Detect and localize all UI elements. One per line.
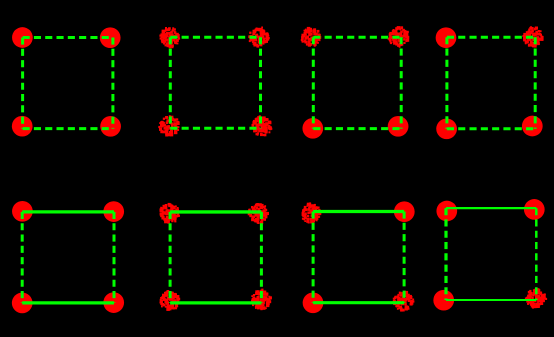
square 2 top edge (dashed) [170,36,260,39]
square 2 left edge (dashed) [169,37,172,128]
square 4 corner marker BR (solid dot) [522,116,543,137]
square 5 corner marker BR (solid dot) [103,292,124,313]
square 1 corner marker TL (solid dot) [12,27,33,48]
square 7 right edge (dashed) [403,212,406,303]
square 7 corner marker BR (stippled dot) [393,291,415,312]
square 3 right edge (dashed) [400,37,403,128]
square 1 top edge (dashed) [23,36,113,39]
square 7 bottom edge (solid) [313,301,404,304]
square 1 corner marker BR (solid dot) [100,116,121,137]
square 5 corner marker TR (solid dot) [103,201,124,222]
square 3 bottom edge (dashed) [313,127,401,130]
square 2 corner marker BR (stippled dot) [252,115,273,136]
square 2 bottom edge (dashed) [170,127,260,130]
square 3 corner marker TR (stippled dot) [388,26,410,48]
square 4 bottom edge (dashed) [447,127,535,130]
square 8 left edge (dashed) [444,208,447,300]
square 4 corner marker TR (stippled dot) [522,26,543,47]
square 7 left edge (dashed) [312,212,315,303]
square 1 right edge (dashed) [111,38,114,129]
square 3 left edge (dashed) [312,37,315,128]
square 4 left edge (dashed) [445,37,448,129]
square 6 top edge (solid) [170,210,261,213]
square 3 top edge (dashed) [313,36,401,39]
square 5 left edge (dashed) [21,212,24,303]
square 8 corner marker TL (solid dot) [436,201,457,222]
square 1 corner marker BL (solid dot) [12,116,33,137]
square 8 top edge (solid) [446,207,536,209]
square 7 corner marker TR (solid dot) [394,201,415,222]
square 2 corner marker BL (stippled dot) [158,115,179,136]
square 6 corner marker TL (stippled dot) [160,203,181,224]
square 6 right edge (dashed) [260,212,263,303]
square 5 right edge (dashed) [113,212,116,303]
square 8 corner marker BR (stippled dot) [525,288,547,308]
square 7 corner marker BL (solid dot) [303,292,324,313]
square 7 corner marker TL (stippled dot) [302,202,322,223]
square 8 corner marker TR (solid dot) [524,199,545,220]
square 4 corner marker BL (solid dot) [436,118,457,139]
square 6 left edge (dashed) [169,212,172,303]
square 4 corner marker TL (solid dot) [436,27,457,48]
square 8 corner marker BL (solid dot) [433,290,454,311]
square 1 bottom edge (dashed) [23,127,113,130]
square 5 corner marker TL (solid dot) [12,201,33,222]
square 1 left edge (dashed) [21,38,24,129]
square 6 corner marker BR (stippled dot) [251,289,272,311]
square 6 corner marker BL (stippled dot) [160,290,181,311]
square 1 corner marker TR (solid dot) [100,27,121,48]
square 4 right edge (dashed) [534,37,537,129]
square 6 bottom edge (solid) [170,301,261,304]
square 2 corner marker TR (stippled dot) [248,27,270,48]
square 6 corner marker TR (stippled dot) [248,203,269,224]
square 4 top edge (dashed) [447,36,535,39]
square 3 corner marker BR (solid dot) [388,116,409,137]
square 5 bottom edge (solid) [22,301,114,304]
square 3 corner marker TL (stippled dot) [301,27,321,47]
square 8 bottom edge (solid) [446,299,536,301]
square 3 corner marker BL (solid dot) [302,118,323,139]
square 2 corner marker TL (stippled dot) [159,27,180,48]
square 2 right edge (dashed) [259,37,262,128]
square 5 corner marker BL (solid dot) [12,293,33,314]
square 7 top edge (solid) [313,210,404,213]
square 8 right edge (dashed) [535,208,538,300]
square 5 top edge (solid) [22,210,114,213]
